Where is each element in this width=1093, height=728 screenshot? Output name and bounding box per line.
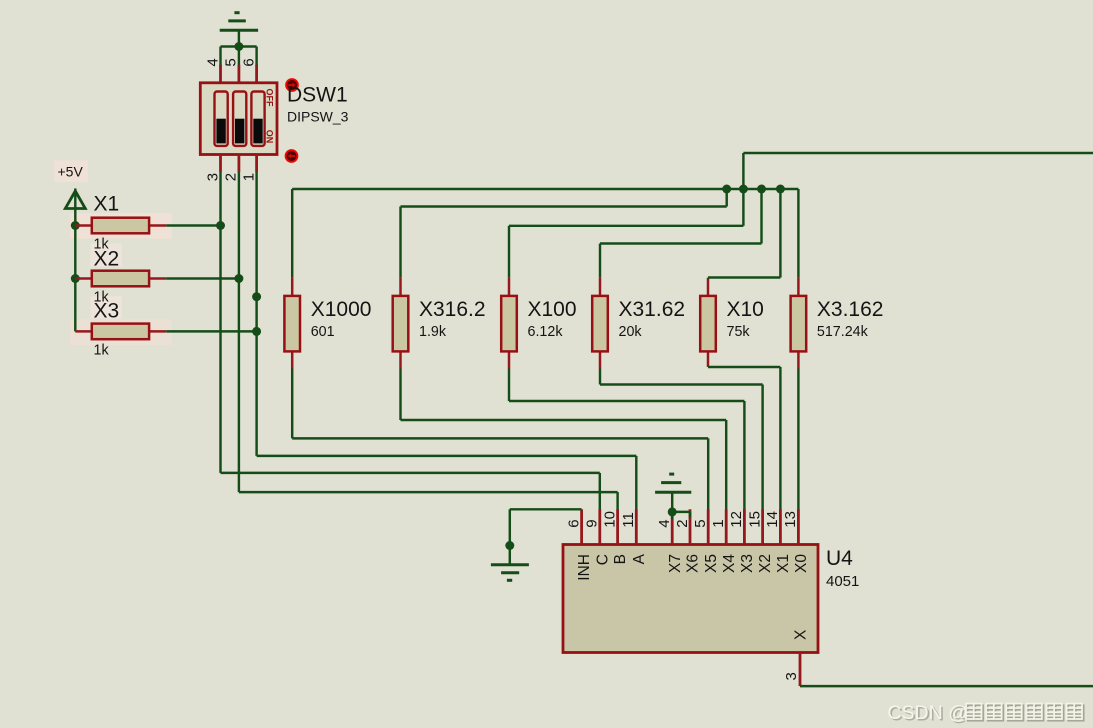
svg-text:X3: X3	[739, 554, 756, 573]
svg-text:A: A	[631, 553, 648, 564]
svg-text:U4: U4	[826, 547, 853, 570]
svg-text:X0: X0	[793, 554, 810, 573]
svg-text:6.12k: 6.12k	[528, 324, 564, 340]
svg-text:X1: X1	[775, 554, 792, 573]
svg-text:6: 6	[240, 58, 257, 66]
svg-text:X6: X6	[685, 554, 702, 573]
svg-text:X3.162: X3.162	[817, 298, 884, 321]
svg-text:13: 13	[782, 511, 799, 528]
svg-text:X: X	[793, 629, 810, 640]
svg-text:11: 11	[620, 512, 637, 528]
svg-text:X10: X10	[727, 298, 764, 321]
svg-text:10: 10	[601, 511, 618, 528]
svg-text:12: 12	[728, 511, 745, 528]
svg-text:X7: X7	[667, 554, 684, 573]
svg-text:OFF: OFF	[264, 89, 274, 107]
svg-text:X5: X5	[703, 554, 720, 573]
svg-text:20k: 20k	[619, 324, 643, 340]
svg-text:2: 2	[674, 519, 691, 527]
svg-text:DIPSW_3: DIPSW_3	[287, 109, 349, 125]
svg-text:4: 4	[204, 58, 221, 66]
svg-text:X4: X4	[721, 554, 738, 573]
svg-text:4: 4	[656, 519, 673, 527]
svg-text:X2: X2	[757, 554, 774, 573]
svg-text:5: 5	[223, 58, 240, 66]
svg-text:ON: ON	[264, 130, 274, 144]
svg-text:75k: 75k	[727, 324, 751, 340]
svg-text:517.24k: 517.24k	[817, 324, 869, 340]
svg-text:5: 5	[692, 519, 709, 527]
svg-text:601: 601	[311, 324, 335, 340]
svg-text:4051: 4051	[826, 573, 859, 590]
svg-text:X2: X2	[94, 247, 120, 270]
svg-text:+5V: +5V	[58, 164, 84, 180]
svg-text:X100: X100	[528, 298, 577, 321]
svg-text:X1000: X1000	[311, 298, 372, 321]
svg-text:9: 9	[584, 519, 601, 527]
svg-text:X31.62: X31.62	[619, 298, 686, 321]
svg-text:CSDN @: CSDN @	[887, 702, 967, 724]
svg-text:15: 15	[746, 511, 763, 528]
svg-text:1: 1	[710, 519, 727, 527]
svg-text:INH: INH	[576, 554, 593, 581]
svg-text:C: C	[594, 554, 611, 565]
svg-text:1: 1	[240, 173, 257, 181]
svg-text:DSW1: DSW1	[287, 84, 348, 107]
svg-text:2: 2	[223, 173, 240, 181]
svg-text:X1: X1	[94, 193, 120, 216]
svg-text:B: B	[612, 554, 629, 564]
svg-text:X3: X3	[94, 300, 120, 323]
svg-text:1k: 1k	[94, 342, 110, 358]
svg-text:3: 3	[204, 173, 221, 181]
svg-text:1.9k: 1.9k	[419, 324, 447, 340]
svg-text:6: 6	[565, 519, 582, 527]
svg-text:3: 3	[783, 672, 800, 680]
svg-text:X316.2: X316.2	[419, 298, 486, 321]
svg-text:14: 14	[764, 511, 781, 528]
